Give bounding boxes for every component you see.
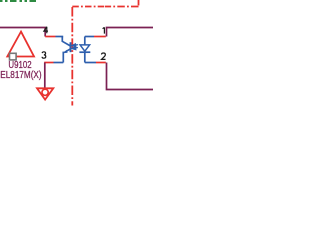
warning triangle symbol [7, 32, 34, 57]
pin 2 stub (red) [96, 62, 106, 64]
base bar [70, 42, 72, 52]
LED triangle [80, 45, 90, 51]
ground symbol (triangle + circle) [37, 88, 53, 99]
pin number 3 [42, 52, 46, 58]
pin 2 wire (blue) [85, 62, 96, 64]
wire net top-right (maroon) [107, 28, 154, 37]
wire to ground (maroon) [44, 63, 46, 89]
anode stem [84, 37, 86, 45]
emitter arrow head [63, 50, 68, 54]
emitter stem [62, 52, 64, 63]
pin number 4 [44, 27, 48, 34]
background [0, 0, 153, 120]
red dash-dot isolation line [72, 0, 138, 106]
cathode bar [79, 51, 90, 53]
pin 4 stub (red) [45, 36, 55, 38]
opto phototransistor (left half) [62, 37, 70, 63]
emitter diagonal [65, 49, 71, 53]
wire net left (maroon) [0, 28, 45, 37]
pin 4 wire (blue) [56, 36, 64, 38]
pin 1 wire (blue) [85, 36, 94, 38]
wire net bottom-right (maroon) [107, 63, 154, 90]
svg-text:EL817M(X): EL817M(X) [0, 70, 41, 81]
pin 3 stub (red) [44, 62, 53, 64]
light arrows [72, 44, 78, 50]
pin 3 wire (blue) [54, 62, 64, 64]
collector stem [62, 37, 70, 47]
LED (right half of opto) [79, 37, 90, 63]
green dashed boundary (top-left) [0, 0, 38, 2]
pin 1 stub (red) [94, 36, 106, 38]
pin number 2 [102, 53, 106, 59]
pin number 1 [103, 27, 105, 33]
grey square handle [10, 53, 17, 60]
cathode stem [84, 52, 86, 62]
